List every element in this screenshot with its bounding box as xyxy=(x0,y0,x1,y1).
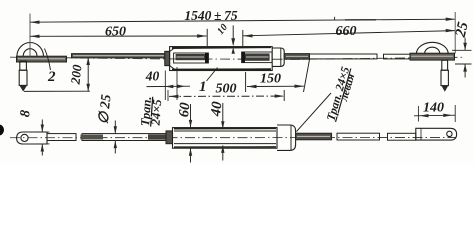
svg-text:∅ 25: ∅ 25 xyxy=(97,94,115,125)
centerline bottom view xyxy=(10,137,456,139)
pin left xyxy=(19,61,27,91)
label 2 leader xyxy=(45,49,51,71)
right end piece with hole xyxy=(416,128,457,140)
bottom turnbuckle right cap xyxy=(277,125,296,150)
rod right section xyxy=(310,54,378,59)
rod right threaded segment xyxy=(284,54,309,60)
svg-text:660: 660 xyxy=(336,24,357,39)
svg-text:150: 150 xyxy=(260,71,281,86)
plate top ext line right xyxy=(452,49,472,51)
right eye outer arc xyxy=(416,42,448,54)
dim 140 line xyxy=(414,105,455,122)
dim 40 bottom arrows xyxy=(221,103,224,161)
rod left thread streak xyxy=(73,55,164,57)
bottom turnbuckle body xyxy=(173,128,278,149)
dim 25 arrows xyxy=(463,38,467,78)
svg-text:2: 2 xyxy=(47,69,56,85)
rod right section 2 xyxy=(384,54,411,59)
dim 660 line xyxy=(243,29,455,38)
bottom rod right section xyxy=(337,133,380,140)
svg-text:1: 1 xyxy=(199,79,207,95)
dim 10 down arrow xyxy=(231,25,235,53)
turnbuckle left window xyxy=(174,53,209,64)
svg-text:1540 ± 75: 1540 ± 75 xyxy=(184,8,238,23)
bottom rod segment 1 xyxy=(47,134,76,141)
dim 10 ext line left xyxy=(206,29,208,46)
svg-text:500: 500 xyxy=(216,82,237,97)
left eye vertical centerline xyxy=(29,14,31,57)
dim dia25 arrows xyxy=(114,121,117,154)
svg-text:8: 8 xyxy=(18,109,34,118)
bottom rod segment 2 xyxy=(81,134,167,141)
dim 200 line xyxy=(86,58,90,92)
bottom rod right section 2 xyxy=(388,133,416,140)
svg-text:25: 25 xyxy=(453,20,472,40)
left fork eye xyxy=(17,132,47,144)
right eye plate xyxy=(410,53,455,60)
svg-text:200: 200 xyxy=(67,63,84,85)
scan blob left edge xyxy=(0,125,4,136)
dim 1540 line xyxy=(30,17,455,24)
turnbuckle body xyxy=(170,47,273,71)
dim 60 arrows xyxy=(189,104,192,163)
left eye inner arc xyxy=(23,49,37,57)
label Trap 24x5 levaya leader xyxy=(297,93,332,132)
dim 650 line xyxy=(30,34,207,38)
turnbuckle right window xyxy=(242,52,272,63)
turnbuckle collar left xyxy=(165,51,170,65)
right eye inner arc xyxy=(425,47,440,53)
svg-text:10: 10 xyxy=(215,22,230,37)
left eye outer arc xyxy=(17,43,44,57)
svg-text:24×5: 24×5 xyxy=(148,99,164,127)
pin tip extension line xyxy=(24,90,90,92)
bottom rod right threaded xyxy=(296,133,332,140)
pin right xyxy=(441,60,448,92)
eye bottom ext line right xyxy=(455,63,472,65)
dim 40 top: arrows xyxy=(147,67,191,100)
left eye plate xyxy=(17,56,67,62)
dim 8 arrows xyxy=(37,120,50,156)
dim 150 line xyxy=(246,60,310,93)
rod left section xyxy=(72,54,166,58)
dim 500 line xyxy=(168,90,284,101)
svg-text:650: 650 xyxy=(105,24,126,39)
bottom turnbuckle collar xyxy=(166,131,173,144)
dim 660 ext line left xyxy=(242,30,244,46)
svg-text:40: 40 xyxy=(145,69,160,84)
centerline top view xyxy=(10,57,462,59)
label 1 leader xyxy=(207,68,218,82)
extension line right end xyxy=(454,12,456,54)
turnbuckle right cap xyxy=(272,48,284,66)
svg-text:140: 140 xyxy=(423,101,444,116)
